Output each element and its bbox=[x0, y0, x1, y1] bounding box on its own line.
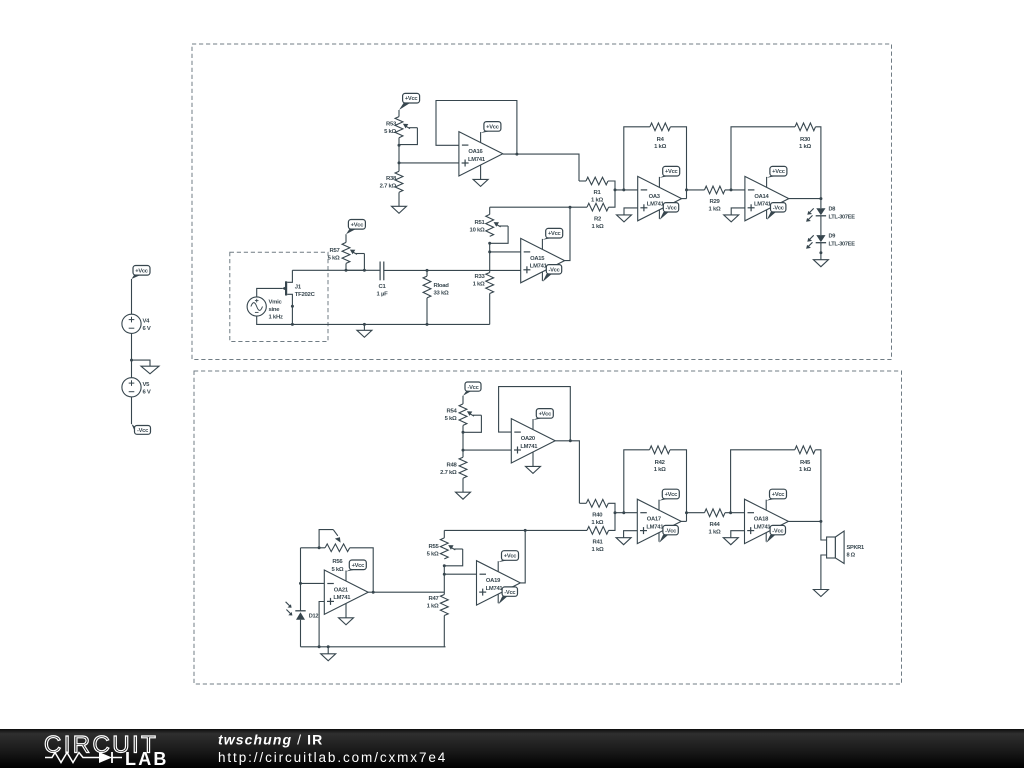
op-amp OA16 bbox=[459, 132, 503, 176]
footer url bbox=[218, 750, 447, 765]
svg-text:8 Ω: 8 Ω bbox=[847, 553, 856, 559]
wire bbox=[462, 478, 464, 492]
resistor R4 (feedback) bbox=[624, 123, 687, 199]
ground (supply midpoint) bbox=[141, 366, 159, 374]
potentiometer R55 bbox=[440, 530, 462, 565]
svg-text:V5: V5 bbox=[143, 382, 151, 388]
node bbox=[426, 323, 429, 326]
label R56 5 kΩ bbox=[331, 559, 343, 573]
label Vmic sine 1 kHz bbox=[269, 300, 283, 321]
ground (OA3 +) bbox=[617, 215, 632, 222]
svg-text:+Vcc: +Vcc bbox=[539, 412, 552, 418]
resistor R44 bbox=[687, 509, 745, 517]
footer bar bbox=[0, 729, 1024, 768]
svg-text:LAB: LAB bbox=[125, 749, 169, 768]
capacitor C1 bbox=[380, 262, 384, 281]
ground (LED chain) bbox=[813, 260, 828, 267]
svg-text:1 kΩ: 1 kΩ bbox=[799, 144, 811, 150]
wire bbox=[363, 324, 365, 330]
node (J1 source) bbox=[291, 305, 294, 308]
svg-text:-Vcc: -Vcc bbox=[548, 268, 559, 274]
svg-text:OA18: OA18 bbox=[754, 517, 769, 523]
ground (R48) bbox=[456, 492, 471, 499]
svg-text:LTL-307EE: LTL-307EE bbox=[829, 215, 856, 221]
svg-text:R48: R48 bbox=[446, 463, 457, 469]
photodiode D12 bbox=[286, 602, 306, 620]
+Vcc flag (OA17 V+) bbox=[659, 489, 679, 510]
label R40 1 kΩ bbox=[591, 512, 603, 526]
wire bbox=[820, 243, 822, 260]
svg-text:R51: R51 bbox=[474, 220, 485, 226]
node (R53 wiper join) bbox=[398, 144, 401, 147]
resistor R48 bbox=[459, 457, 467, 478]
-Vcc flag (R54 top) bbox=[463, 382, 481, 396]
svg-text:LM741: LM741 bbox=[333, 595, 351, 601]
wire bbox=[350, 548, 374, 592]
svg-text:R33: R33 bbox=[474, 274, 485, 280]
svg-text:J1: J1 bbox=[295, 285, 302, 291]
label R2 1 kΩ bbox=[592, 217, 604, 231]
op-amp OA21 bbox=[324, 570, 368, 614]
wire (OA17 output) bbox=[681, 520, 686, 522]
svg-text:OA17: OA17 bbox=[647, 517, 661, 523]
label R41 1 kΩ bbox=[592, 539, 604, 553]
svg-text:R40: R40 bbox=[592, 512, 603, 518]
ground (OA21 V-) bbox=[339, 604, 354, 625]
svg-text:+Vcc: +Vcc bbox=[504, 554, 517, 560]
node bbox=[819, 251, 822, 254]
svg-text:R29: R29 bbox=[709, 199, 720, 205]
ground (OA18 +) bbox=[723, 538, 738, 545]
label R48 2.7 kΩ bbox=[440, 463, 457, 477]
node (OA3 output) bbox=[685, 188, 688, 191]
svg-text:+Vcc: +Vcc bbox=[405, 96, 418, 102]
wire bbox=[443, 574, 445, 594]
resistor Rload bbox=[423, 270, 431, 324]
potentiometer R51 bbox=[486, 207, 508, 243]
svg-text:LM741: LM741 bbox=[647, 202, 665, 208]
node (R57 wiper) bbox=[363, 269, 366, 272]
CircuitLab logo resistor-diode glyph bbox=[45, 752, 122, 763]
label D9 LTL-307EE bbox=[829, 233, 856, 247]
wire bbox=[398, 138, 400, 172]
svg-text:5 kΩ: 5 kΩ bbox=[331, 567, 343, 573]
svg-text:LM741: LM741 bbox=[530, 264, 548, 270]
wire (photodiode branch) bbox=[300, 548, 302, 611]
wire bbox=[131, 333, 133, 377]
svg-text:+Vcc: +Vcc bbox=[135, 268, 148, 274]
wire bbox=[131, 397, 133, 424]
svg-text:OA14: OA14 bbox=[754, 194, 769, 200]
resistor R45 (feedback) bbox=[731, 446, 821, 522]
LED D9 bbox=[806, 235, 826, 249]
node (R1/R2 join) bbox=[614, 188, 617, 191]
node (OA16 output) bbox=[515, 153, 518, 156]
svg-text:-Vcc: -Vcc bbox=[665, 206, 676, 212]
-Vcc flag (OA3 V-) bbox=[659, 203, 678, 220]
ground (OA20 V-) bbox=[526, 452, 541, 473]
svg-text:R4: R4 bbox=[657, 137, 665, 143]
svg-text:R1: R1 bbox=[593, 190, 601, 196]
+Vcc flag (R57 top) bbox=[346, 220, 365, 235]
wire bbox=[615, 512, 637, 514]
svg-text:1 kΩ: 1 kΩ bbox=[654, 144, 666, 150]
svg-text:D9: D9 bbox=[829, 233, 836, 239]
svg-text:R55: R55 bbox=[428, 544, 439, 550]
wire (OA3 output) bbox=[682, 198, 687, 200]
svg-text:-Vcc: -Vcc bbox=[137, 428, 148, 434]
wire bbox=[463, 449, 511, 451]
wire bbox=[398, 110, 400, 117]
wire (OA17 + to ground) bbox=[624, 531, 638, 538]
node bbox=[291, 323, 294, 326]
node (R40/R41 join) bbox=[614, 511, 617, 514]
node bbox=[372, 591, 375, 594]
voltage source V5 bbox=[122, 378, 151, 397]
wire bbox=[821, 521, 827, 540]
node (OA18 inverting input) bbox=[729, 511, 732, 514]
CircuitLab logo LAB bbox=[125, 749, 169, 768]
svg-text:R30: R30 bbox=[800, 137, 811, 143]
resistor R33 bbox=[486, 273, 494, 325]
svg-text:1 kΩ: 1 kΩ bbox=[592, 224, 604, 230]
wire bbox=[131, 279, 133, 314]
node (R51 wiper join) bbox=[488, 242, 491, 245]
ground (receiver bus) bbox=[321, 654, 336, 661]
wire bbox=[300, 620, 302, 647]
wire (receiver ground bus) bbox=[301, 646, 446, 648]
svg-text:R44: R44 bbox=[709, 522, 720, 528]
node (OA17 output) bbox=[685, 511, 688, 514]
svg-text:1 kΩ: 1 kΩ bbox=[592, 547, 604, 553]
svg-text:-Vcc: -Vcc bbox=[504, 590, 515, 596]
svg-text:SPKR1: SPKR1 bbox=[847, 545, 865, 551]
wire (OA14 + to ground) bbox=[731, 208, 745, 215]
node (OA15 inverting node) bbox=[488, 250, 491, 253]
svg-text:LM741: LM741 bbox=[754, 524, 772, 530]
svg-text:R54: R54 bbox=[446, 409, 457, 415]
-Vcc flag (OA14 V-) bbox=[767, 203, 786, 220]
svg-text:-Vcc: -Vcc bbox=[665, 528, 676, 534]
voltage source Vmic bbox=[247, 297, 266, 316]
wire bbox=[301, 547, 326, 549]
op-amp OA19 bbox=[477, 561, 521, 605]
svg-text:+Vcc: +Vcc bbox=[772, 492, 785, 498]
resistor R30 (feedback) bbox=[731, 123, 821, 199]
potentiometer R57 bbox=[342, 242, 364, 270]
wire bbox=[489, 243, 491, 252]
label R4 1 kΩ bbox=[654, 137, 666, 150]
svg-text:R47: R47 bbox=[428, 596, 439, 602]
node (bias divider) bbox=[462, 449, 465, 452]
svg-text:1 µF: 1 µF bbox=[377, 291, 389, 297]
+Vcc flag (R53 top) bbox=[399, 93, 420, 110]
label R1 1 kΩ bbox=[591, 190, 603, 204]
svg-text:5 kΩ: 5 kΩ bbox=[328, 256, 340, 262]
wire bbox=[462, 425, 464, 457]
svg-text:D12: D12 bbox=[309, 614, 319, 620]
wire bbox=[399, 162, 459, 164]
wire (OA16 output) bbox=[503, 154, 579, 181]
ground (OA17 +) bbox=[616, 538, 631, 545]
node (OA17 inverting input) bbox=[622, 511, 625, 514]
label R57 5 kΩ bbox=[328, 248, 341, 262]
svg-text:-Vcc: -Vcc bbox=[467, 385, 478, 391]
svg-text:5 kΩ: 5 kΩ bbox=[445, 416, 457, 422]
svg-text:1 kΩ: 1 kΩ bbox=[473, 282, 485, 288]
+Vcc flag (OA18 V+) bbox=[766, 489, 786, 510]
svg-text:sine: sine bbox=[269, 307, 281, 313]
label C1 1 µF bbox=[377, 284, 389, 297]
ground (speaker) bbox=[813, 590, 828, 597]
node (OA14 output) bbox=[819, 197, 822, 200]
svg-text:Vmic: Vmic bbox=[269, 300, 283, 306]
wire bbox=[398, 192, 400, 206]
label R51 10 kΩ bbox=[470, 220, 486, 234]
ground (R38) bbox=[392, 206, 407, 213]
svg-text:OA19: OA19 bbox=[486, 578, 501, 584]
label R33 1 kΩ bbox=[473, 274, 486, 288]
svg-text:-Vcc: -Vcc bbox=[773, 206, 784, 212]
node (bias divider) bbox=[398, 161, 401, 164]
potentiometer R56 (horizontal) bbox=[319, 530, 350, 552]
label R44 1 kΩ bbox=[709, 522, 721, 536]
label R55 5 kΩ bbox=[427, 544, 440, 558]
svg-text:OA15: OA15 bbox=[530, 256, 545, 262]
svg-text:Rload: Rload bbox=[434, 283, 450, 289]
wire (C1 to OA15 +) bbox=[384, 269, 521, 271]
label D12 bbox=[309, 614, 319, 620]
node (OA21 inverting input) bbox=[299, 582, 302, 585]
svg-text:R57: R57 bbox=[329, 248, 340, 254]
label R42 1 kΩ bbox=[654, 460, 666, 473]
svg-text:OA3: OA3 bbox=[649, 194, 661, 200]
+Vcc flag (OA21 V+) bbox=[346, 560, 366, 581]
wire (OA15 output bus) bbox=[490, 206, 587, 208]
label Rload 33 kΩ bbox=[434, 283, 450, 297]
svg-text:+Vcc: +Vcc bbox=[665, 492, 678, 498]
label R45 1 kΩ bbox=[799, 460, 811, 473]
-Vcc flag (supply rail) bbox=[132, 424, 151, 434]
wire bbox=[132, 360, 151, 366]
wire bbox=[301, 582, 325, 584]
wire bbox=[462, 396, 464, 404]
+Vcc flag (OA16 V+) bbox=[481, 122, 501, 143]
wire (mic ground bus) bbox=[257, 316, 490, 324]
wire bbox=[615, 189, 638, 191]
ground (OA14 +) bbox=[724, 215, 739, 222]
wire bbox=[327, 647, 329, 654]
wire bbox=[820, 199, 822, 209]
label D8 LTL-307EE bbox=[829, 207, 856, 221]
svg-text:+Vcc: +Vcc bbox=[548, 231, 561, 237]
transistor J1 bbox=[282, 270, 293, 324]
wire (Vmic to J1 gate) bbox=[257, 288, 283, 297]
wire (OA20 feedback) bbox=[499, 387, 571, 441]
svg-text:1 kΩ: 1 kΩ bbox=[799, 467, 811, 473]
resistor R47 bbox=[440, 595, 448, 647]
-Vcc flag (OA19 V-) bbox=[498, 587, 517, 604]
label R29 1 kΩ bbox=[709, 199, 721, 213]
svg-text:OA21: OA21 bbox=[334, 588, 349, 594]
svg-text:R38: R38 bbox=[386, 176, 397, 182]
potentiometer R53 bbox=[395, 117, 417, 145]
svg-text:1 kΩ: 1 kΩ bbox=[591, 520, 603, 526]
+Vcc flag (OA3 V+) bbox=[659, 166, 679, 187]
svg-text:2.7 kΩ: 2.7 kΩ bbox=[380, 184, 397, 190]
wire (OA16 feedback) bbox=[436, 101, 517, 155]
svg-text:LM741: LM741 bbox=[486, 586, 504, 592]
svg-text:1 kΩ: 1 kΩ bbox=[591, 198, 603, 204]
node (OA19 inverting node) bbox=[443, 573, 446, 576]
+Vcc flag (OA19 V+) bbox=[498, 551, 518, 572]
svg-text:twschung / IR: twschung / IR bbox=[218, 732, 323, 748]
resistor R1 bbox=[579, 177, 615, 190]
wire (OA21 output) bbox=[368, 591, 444, 593]
wire (OA20 output) bbox=[555, 441, 579, 504]
wire (OA21 + tap) bbox=[319, 602, 324, 647]
label R38 2.7 kΩ bbox=[380, 176, 397, 190]
label R30 1 kΩ bbox=[799, 137, 811, 150]
svg-text:-Vcc: -Vcc bbox=[772, 528, 783, 534]
wire (OA19 out to R41) bbox=[444, 529, 587, 531]
node (OA20 output) bbox=[569, 439, 572, 442]
svg-text:5 kΩ: 5 kΩ bbox=[427, 552, 439, 558]
wire bbox=[821, 555, 827, 590]
node (OA3 inverting input) bbox=[622, 188, 625, 191]
resistor R29 bbox=[687, 186, 745, 194]
resistor R40 bbox=[579, 499, 615, 512]
ground (OA16 V-) bbox=[473, 165, 488, 186]
svg-text:R2: R2 bbox=[594, 217, 602, 223]
op-amp OA18 bbox=[745, 499, 789, 543]
svg-text:1 kΩ: 1 kΩ bbox=[654, 467, 666, 473]
label R47 1 kΩ bbox=[427, 596, 440, 610]
op-amp OA15 bbox=[521, 238, 565, 282]
svg-text:OA16: OA16 bbox=[468, 149, 483, 155]
node (Rload top) bbox=[426, 269, 429, 272]
svg-text:2.7 kΩ: 2.7 kΩ bbox=[440, 470, 457, 476]
footer title twschung / IR bbox=[218, 732, 323, 748]
receiver enclosure (dashed box) bbox=[194, 371, 902, 684]
label SPKR1 8 Ω bbox=[847, 545, 865, 559]
svg-text:R45: R45 bbox=[800, 460, 811, 466]
node (OA18 output) bbox=[819, 520, 822, 523]
node (OA15 output) bbox=[569, 206, 572, 209]
transmitter enclosure (dashed box) bbox=[192, 44, 892, 360]
resistor R41 bbox=[587, 513, 615, 535]
label R53 5 kΩ bbox=[384, 122, 397, 136]
svg-text:33 kΩ: 33 kΩ bbox=[434, 291, 449, 297]
svg-text:1 kΩ: 1 kΩ bbox=[427, 604, 439, 610]
op-amp OA20 bbox=[511, 419, 555, 463]
node bbox=[327, 645, 330, 648]
svg-text:+Vcc: +Vcc bbox=[351, 222, 364, 228]
svg-text:6 V: 6 V bbox=[143, 326, 151, 332]
resistor R2 bbox=[587, 190, 615, 211]
+Vcc flag (supply rail) bbox=[132, 266, 151, 280]
svg-text:V4: V4 bbox=[143, 319, 151, 325]
node (R55 wiper join) bbox=[443, 564, 446, 567]
svg-text:1 kΩ: 1 kΩ bbox=[709, 207, 721, 213]
resistor R38 bbox=[395, 171, 403, 192]
svg-text:+Vcc: +Vcc bbox=[486, 124, 499, 130]
node bbox=[318, 645, 321, 648]
+Vcc flag (OA14 V+) bbox=[767, 166, 787, 187]
wire bbox=[345, 263, 347, 270]
label J1 TF202C bbox=[295, 285, 316, 299]
svg-text:TF202C: TF202C bbox=[295, 292, 316, 298]
node (V4/V5 midpoint) bbox=[130, 359, 133, 362]
svg-text:LM741: LM741 bbox=[468, 157, 486, 163]
svg-text:LTL-307EE: LTL-307EE bbox=[829, 242, 856, 248]
wire (OA18 output) bbox=[788, 520, 821, 522]
svg-text:10 kΩ: 10 kΩ bbox=[470, 228, 485, 234]
svg-text:+Vcc: +Vcc bbox=[352, 563, 365, 569]
node (R56 wiper join) bbox=[318, 546, 321, 549]
LED D8 bbox=[806, 208, 826, 222]
wire bbox=[820, 216, 822, 235]
node (OA14 inverting input) bbox=[730, 188, 733, 191]
wire (OA3 + to ground) bbox=[624, 208, 638, 215]
+Vcc flag (OA15 V+) bbox=[542, 228, 562, 249]
svg-text:5 kΩ: 5 kΩ bbox=[384, 129, 396, 135]
svg-text:6 V: 6 V bbox=[143, 390, 151, 396]
wire (OA14 output) bbox=[789, 198, 821, 200]
node (R57 bottom) bbox=[345, 269, 348, 272]
-Vcc flag (OA15 V-) bbox=[542, 265, 561, 282]
potentiometer R54 bbox=[459, 404, 481, 432]
op-amp OA17 bbox=[637, 499, 681, 543]
svg-text:1 kΩ: 1 kΩ bbox=[709, 529, 721, 535]
speaker SPKR1 bbox=[827, 531, 845, 564]
svg-text:LM741: LM741 bbox=[754, 202, 772, 208]
CircuitLab logo CIRCUIT bbox=[44, 732, 158, 759]
svg-text:http://circuitlab.com/cxmx7e4: http://circuitlab.com/cxmx7e4 bbox=[218, 750, 447, 765]
microphone enclosure (dashed box) bbox=[230, 252, 328, 341]
label R54 5 kΩ bbox=[445, 409, 458, 423]
ground (mic bus) bbox=[357, 330, 372, 337]
svg-text:R41: R41 bbox=[592, 539, 603, 545]
svg-text:C1: C1 bbox=[378, 284, 386, 290]
svg-text:R56: R56 bbox=[332, 559, 343, 565]
-Vcc flag (OA17 V-) bbox=[659, 525, 678, 542]
voltage source V4 bbox=[122, 314, 151, 333]
wire bbox=[489, 252, 491, 273]
-Vcc flag (OA18 V-) bbox=[766, 525, 785, 542]
wire (OA19 output) bbox=[520, 530, 525, 583]
svg-text:R53: R53 bbox=[386, 122, 397, 128]
svg-text:OA20: OA20 bbox=[521, 436, 535, 442]
wire (OA15 output) bbox=[565, 207, 570, 260]
wire bbox=[490, 251, 521, 253]
wire bbox=[345, 234, 347, 242]
wire bbox=[444, 573, 476, 575]
svg-text:1 kHz: 1 kHz bbox=[269, 315, 283, 321]
svg-text:LM741: LM741 bbox=[646, 524, 664, 530]
svg-text:R42: R42 bbox=[655, 460, 666, 466]
+Vcc flag (OA20 V+) bbox=[533, 409, 553, 430]
op-amp OA3 bbox=[638, 176, 682, 220]
wire (J1 drain to C1) bbox=[292, 269, 380, 271]
wire bbox=[443, 566, 445, 574]
resistor R42 (feedback) bbox=[624, 446, 687, 522]
wire (OA18 + to ground) bbox=[731, 531, 745, 538]
svg-text:+Vcc: +Vcc bbox=[772, 169, 785, 175]
node (R54 wiper join) bbox=[462, 431, 465, 434]
svg-text:+Vcc: +Vcc bbox=[665, 169, 678, 175]
op-amp OA14 bbox=[745, 176, 789, 220]
